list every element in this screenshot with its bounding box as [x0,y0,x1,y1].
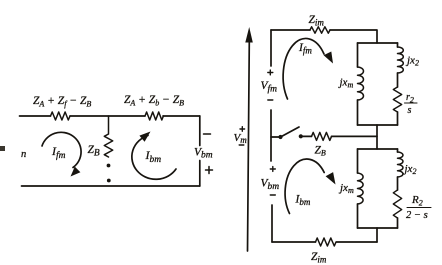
resistor Z_im (bottom) zigzag [316,238,337,246]
svg-text:ZA + Zb − ZB: ZA + Zb − ZB [124,94,184,108]
svg-text:Ifm: Ifm [51,144,66,161]
resistor R1 Z_A+Z_f-Z_B zigzag [51,112,70,120]
fraction bar r2/s [405,102,418,104]
svg-text:Vbm: Vbm [194,147,213,161]
label minus V_bm [204,133,211,135]
voltage arrow V_m [248,41,250,251]
svg-text:ZB: ZB [88,144,100,159]
inductor jx_m lower (4 humps) [358,173,364,204]
svg-text:Zim: Zim [311,251,327,265]
wire middle junction vertical [376,125,378,149]
upper box left side (below coil) [357,100,359,125]
svg-text:ZB: ZB [315,145,326,158]
resistor Z_B (middle) zigzag [312,132,332,140]
svg-text:jx2: jx2 [405,55,419,68]
lower box bottom side [358,227,398,229]
upper box bottom side [358,124,398,126]
lower box right side (between) [397,177,399,190]
label plus V_fm [268,70,273,75]
svg-text:Vm: Vm [234,132,248,145]
resistor R2 Z_A+Z_b-Z_B zigzag [145,112,163,120]
resistor r_2/s zigzag [393,87,401,112]
junction dot on bottom wire [107,179,111,183]
inductor jx_2 upper (4 humps) [398,47,404,73]
upper box top side [358,42,398,44]
upper box right side (above coil) [397,43,399,47]
current arrow I_bm (tall arc) [285,159,324,213]
wire top-right segment [163,115,200,117]
wire left rail upper segment [270,30,272,66]
wire middle right [332,135,378,137]
switch blade [281,127,300,137]
inductor jx_m upper (4 humps) [358,67,364,100]
resistor Z_B vertical branch [104,116,112,157]
fraction bar R2/(2-s) [407,207,431,209]
wire bottom-left [272,241,316,243]
wire below lower box [376,228,378,242]
lower box top side [358,148,398,150]
resistor R_2/(2-s) zigzag [393,190,401,218]
svg-text:Vfm: Vfm [261,80,278,95]
label plus V_bm right [270,167,275,172]
lower box left side (below coil) [357,204,359,228]
wire to Z_B [301,135,312,137]
svg-text:n: n [21,149,26,160]
wire bottom-right [337,241,378,243]
lower box left side (above coil) [357,149,359,173]
current arrow I_fm (tall arc) [283,38,324,99]
svg-text:ZA + Zf − ZB: ZA + Zf − ZB [33,95,91,109]
lower box right side (above coil) [397,149,399,152]
upper box right side (below resistor) [397,112,399,125]
upper box left side (above coil) [357,43,359,67]
wire left rail lower segment [271,205,273,242]
svg-text:2 − s: 2 − s [406,210,428,221]
resistor Z_im (top) zigzag [310,27,330,33]
wire left rail middle segment [270,110,272,161]
switch right terminal dot [299,134,303,138]
svg-text:jxm: jxm [338,182,354,195]
inductor jx_2 lower (4 humps) [398,152,403,177]
svg-text:s: s [408,105,412,116]
wire top-right [330,30,377,43]
edge artifact mark [0,146,5,151]
lower box right side (below resistor) [397,218,399,228]
mesh current arrow I_fm (clockwise arc) [42,132,81,167]
wire bottom [22,185,200,187]
svg-text:jxm: jxm [338,77,354,90]
label minus V_bm right [270,194,275,196]
switch left terminal dot [278,135,282,139]
wire top-middle segment [70,115,145,117]
label minus V_fm [268,99,273,101]
upper box right side (between coil and resistor) [397,73,399,87]
switch stub [271,136,279,138]
svg-text:Ifm: Ifm [298,42,312,56]
svg-text:Zim: Zim [309,14,325,28]
svg-text:Ibm: Ibm [145,148,162,165]
wire right rail [199,116,201,186]
svg-text:Ibm: Ibm [295,194,311,208]
label minus V_m [239,144,244,146]
svg-text:Vbm: Vbm [261,178,280,193]
label plus V_m [240,127,245,132]
mesh current arrow I_bm (arc with NE head) [132,136,176,180]
svg-text:R2: R2 [411,194,423,208]
junction dot below Z_B [107,164,111,168]
svg-text:jx2: jx2 [403,163,417,176]
label plus V_bm [206,167,213,174]
wire top [271,29,310,31]
wire top-left segment [20,115,51,117]
